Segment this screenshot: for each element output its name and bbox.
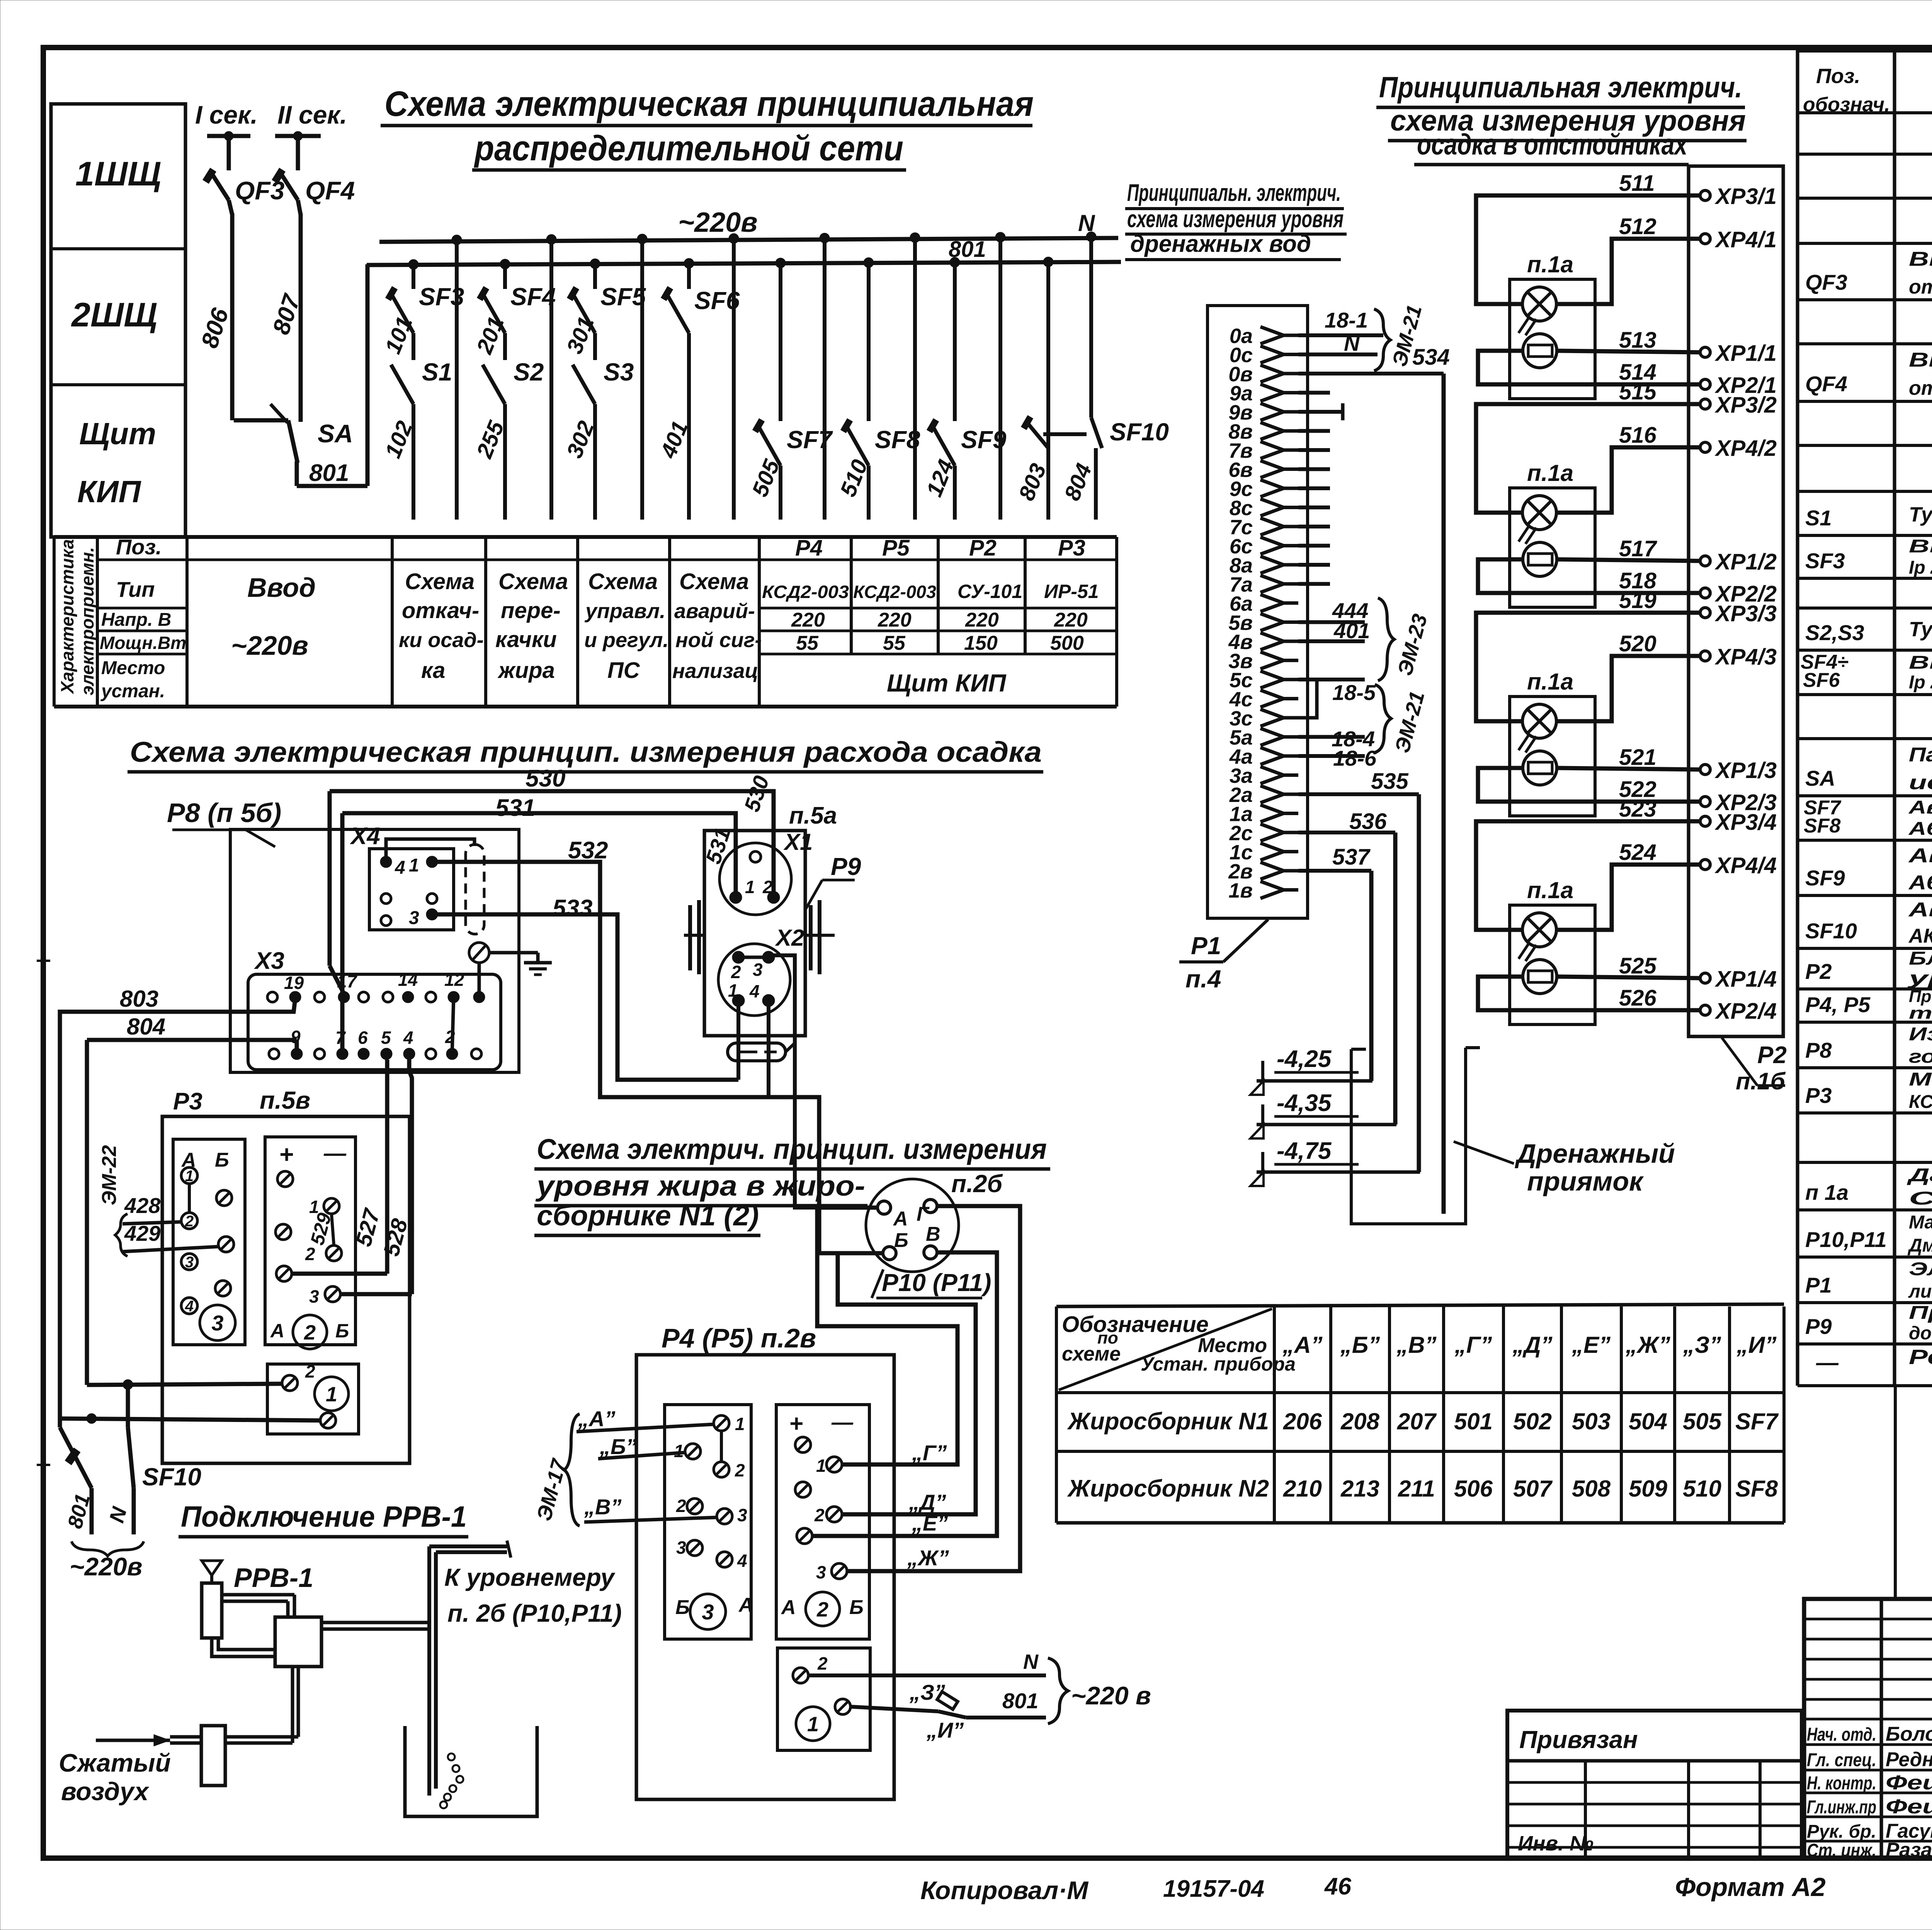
- svg-text:го расходомера ИР-51 ТУ-25-02-: го расходомера ИР-51 ТУ-25-02-321-72: [1909, 1047, 1932, 1067]
- wire 18-5: [1298, 678, 1365, 681]
- svg-text:К уровнемеру: К уровнемеру: [444, 1563, 616, 1591]
- terminal ХР3/4: [1700, 816, 1710, 826]
- branch SF5/S3 wire 301/302: [593, 265, 597, 289]
- svg-text:2: 2: [814, 1505, 825, 1525]
- svg-text:SF5: SF5: [600, 283, 646, 311]
- valve box: [275, 1617, 321, 1667]
- svg-text:502: 502: [1513, 1408, 1552, 1434]
- svg-text:Автоматичческий Выключатель: Автоматичческий Выключатель: [1908, 797, 1932, 818]
- svg-text:3: 3: [702, 1600, 714, 1624]
- svg-text:АК63-2МУЗ Iр 4,0А отс. 5: АК63-2МУЗ Iр 4,0А отс. 5: [1908, 925, 1932, 947]
- svg-text:Характеристика: Характеристика: [57, 539, 77, 695]
- svg-text:526: 526: [1619, 985, 1657, 1011]
- svg-text:„Г”: „Г”: [1454, 1332, 1492, 1358]
- svg-text:55: 55: [796, 632, 819, 654]
- svg-text:Ввод: Ввод: [247, 573, 316, 603]
- svg-text:535: 535: [1371, 769, 1409, 794]
- svg-text:I сек.: I сек.: [195, 100, 258, 129]
- leader to drain pit text: [1454, 1142, 1514, 1164]
- svg-text:ХР1/4: ХР1/4: [1714, 967, 1777, 992]
- svg-text:208: 208: [1340, 1408, 1380, 1434]
- svg-text:-4,35: -4,35: [1277, 1090, 1332, 1116]
- branch SF8 wire 510: [867, 264, 871, 421]
- svg-text:Привязан: Привязан: [1519, 1726, 1638, 1753]
- svg-text:КСД2-003: КСД2-003: [853, 582, 936, 602]
- svg-text:Редникин: Редникин: [1886, 1748, 1932, 1771]
- water tank: [405, 1726, 537, 1816]
- wire 807 drop: [296, 136, 300, 170]
- svg-text:519: 519: [1619, 588, 1656, 613]
- wire 519: [1476, 613, 1700, 721]
- svg-text:тр-ной измерительной КСД2- 00: тр-ной измерительной КСД2- 003: [1909, 1004, 1932, 1023]
- svg-text:Электрический регулятор- сигн: Электрический регулятор- сигна-: [1909, 1259, 1932, 1279]
- svg-text:исполн. III ОСТ 160. 526. 00: исполн. III ОСТ 160. 526. 001- 77: [1909, 771, 1932, 794]
- pin 9v stub with T end: [1298, 410, 1343, 414]
- P4 left terminal sub-box: [665, 1405, 751, 1639]
- svg-text:приямок: приямок: [1527, 1166, 1644, 1196]
- RRV-1 funnel: [202, 1561, 222, 1575]
- device P9 box: [704, 831, 805, 1036]
- svg-text:Подключение РРВ-1: Подключение РРВ-1: [181, 1500, 467, 1533]
- svg-text:А63 МУЗТУ 16. 522. 110-74 Iр 2: А63 МУЗТУ 16. 522. 110-74 Iр 2А отс. 5: [1908, 872, 1932, 894]
- svg-text:Iр 2,5А отс.3,5: Iр 2,5А отс.3,5: [1909, 672, 1932, 693]
- svg-text:„Е”: „Е”: [912, 1511, 948, 1535]
- wire 18-1: [1298, 333, 1383, 337]
- terminal ХР2/2: [1700, 588, 1710, 598]
- terminal ХР3/3: [1700, 608, 1710, 618]
- svg-text:803: 803: [120, 986, 158, 1012]
- junction on ~220v bus x=2368: [910, 233, 920, 243]
- svg-text:2: 2: [817, 1653, 828, 1673]
- svg-text:Инв. №: Инв. №: [1518, 1832, 1594, 1855]
- svg-text:Прибор с дифференциально-: Прибор с дифференциально-: [1909, 987, 1932, 1006]
- wire N stub: [132, 1488, 136, 1534]
- svg-text:п.1б: п.1б: [1736, 1068, 1786, 1095]
- svg-text:513: 513: [1619, 328, 1656, 353]
- svg-text:Схема: Схема: [405, 569, 474, 594]
- svg-text:отс. 5: отс. 5: [1909, 276, 1932, 298]
- svg-text:1: 1: [326, 1383, 337, 1406]
- svg-text:„Д”: „Д”: [1512, 1332, 1552, 1358]
- designation cross-reference table: [1056, 1304, 1784, 1306]
- svg-text:Р5: Р5: [882, 535, 910, 561]
- svg-text:п.1а: п.1а: [1527, 460, 1573, 486]
- wire 515: [1476, 404, 1700, 513]
- junction on 801 bus x=2471: [950, 257, 960, 267]
- svg-text:ХР4/4: ХР4/4: [1714, 853, 1777, 878]
- svg-text:Х2: Х2: [775, 925, 804, 951]
- svg-text:5: 5: [381, 1028, 391, 1048]
- svg-text:19: 19: [284, 973, 304, 993]
- brace ~220v right: [1048, 1658, 1068, 1724]
- svg-text:Миллиамперметр самопищущий: Миллиамперметр самопищущий: [1909, 1069, 1932, 1090]
- svg-text:ХР2/4: ХР2/4: [1714, 999, 1777, 1024]
- arrow marks lamp unit #4: [1519, 943, 1529, 959]
- svg-text:2: 2: [735, 1460, 745, 1480]
- svg-text:211: 211: [1398, 1476, 1435, 1502]
- svg-text:Выключатель АП 50- 3 МТ Iр 10: Выключатель АП 50- 3 МТ Iр 10А: [1909, 349, 1932, 371]
- svg-text:ХР3/4: ХР3/4: [1714, 810, 1777, 835]
- svg-text:SF3: SF3: [419, 283, 464, 311]
- svg-text:КС У2- 004: КС У2- 004: [1909, 1092, 1932, 1112]
- svg-text:210: 210: [1283, 1476, 1322, 1502]
- riser pipe to valve box: [291, 1667, 294, 1743]
- junction on 801 bus x=2713: [1043, 257, 1053, 267]
- svg-text:4: 4: [395, 858, 405, 878]
- svg-text:Р3: Р3: [1805, 1083, 1832, 1108]
- svg-text:устан.: устан.: [100, 681, 165, 702]
- svg-text:обознач.: обознач.: [1803, 93, 1890, 116]
- svg-text:Формат А2: Формат А2: [1675, 1872, 1826, 1902]
- svg-text:СУ-101 1Е 2.850.101 - 0Сп: СУ-101 1Е 2.850.101 - 0Сп: [1909, 1188, 1932, 1209]
- svg-text:SA: SA: [318, 419, 353, 448]
- breaker SF10 bottom left: [60, 1427, 92, 1488]
- drain pit walls: [1351, 1048, 1466, 1224]
- svg-text:ХР4/3: ХР4/3: [1714, 644, 1777, 669]
- signal lamp unit p.1a #1: [1510, 279, 1595, 399]
- svg-text:525: 525: [1619, 953, 1657, 979]
- svg-text:Р4: Р4: [795, 535, 823, 561]
- svg-text:пере-: пере-: [501, 598, 561, 623]
- svg-text:Мощн.Вт: Мощн.Вт: [100, 633, 186, 653]
- compressed air arrow: [96, 1739, 170, 1742]
- svg-text:Преобразователь расхода расх: Преобразователь расхода расхо-: [1909, 1303, 1932, 1323]
- svg-text:Тумблер ТВ1-2: Тумблер ТВ1-2: [1909, 503, 1932, 526]
- svg-text:Р3: Р3: [1058, 535, 1085, 561]
- svg-text:Б: Б: [675, 1596, 690, 1619]
- jumper 5s-4s-3s: [1298, 680, 1317, 718]
- svg-text:управл.: управл.: [584, 600, 665, 623]
- svg-text:А: А: [893, 1208, 908, 1230]
- svg-text:Х3: Х3: [254, 948, 284, 974]
- P3 plus-minus terminal sub-box: [265, 1137, 355, 1345]
- svg-text:Разанова: Разанова: [1886, 1839, 1932, 1861]
- svg-text:Болотов: Болотов: [1886, 1723, 1932, 1745]
- svg-text:п.1а: п.1а: [1527, 251, 1573, 277]
- terminal ХР3/1: [1700, 190, 1710, 200]
- svg-text:18-1: 18-1: [1325, 308, 1368, 332]
- svg-text:4: 4: [185, 1298, 194, 1315]
- svg-text:SF9: SF9: [961, 426, 1007, 454]
- svg-text:2: 2: [676, 1496, 686, 1516]
- svg-text:+: +: [789, 1410, 803, 1437]
- svg-text:509: 509: [1629, 1476, 1668, 1502]
- wire 517: [1557, 559, 1700, 561]
- svg-text:„Ж”: „Ж”: [907, 1546, 949, 1570]
- svg-text:~220в: ~220в: [231, 630, 308, 661]
- svg-text:Р2: Р2: [969, 535, 997, 561]
- svg-text:„А”: „А”: [1282, 1332, 1322, 1358]
- terminal ХР2/4: [1700, 1005, 1710, 1015]
- svg-text:Р9: Р9: [1805, 1314, 1832, 1339]
- svg-text:„Б”: „Б”: [1340, 1332, 1380, 1358]
- svg-text:КИП: КИП: [77, 474, 141, 509]
- wires X2 pins 1,4 to 532/533 runs: [736, 1007, 740, 1080]
- svg-text:4: 4: [737, 1551, 747, 1571]
- svg-text:Измерительный блок индукцион: Измерительный блок индукционно-: [1909, 1024, 1932, 1045]
- svg-text:2: 2: [816, 1598, 828, 1621]
- svg-text:12: 12: [444, 970, 464, 990]
- svg-text:Пакетный переключатель ПП2-10: Пакетный переключатель ПП2-10/Н2,: [1909, 744, 1932, 766]
- svg-text:Тумблер ТВ1-2: Тумблер ТВ1-2: [1909, 618, 1932, 641]
- junction on 801 bus x=1783: [684, 258, 694, 268]
- svg-text:ХР1/1: ХР1/1: [1714, 341, 1777, 366]
- svg-text:КСД2-003: КСД2-003: [762, 582, 849, 602]
- wire 520: [1556, 656, 1700, 721]
- svg-text:А: А: [270, 1320, 284, 1342]
- air bubbles: [448, 1753, 455, 1760]
- wire 801 stub: [90, 1488, 94, 1534]
- svg-text:Принципиальная электрич.: Принципиальная электрич.: [1379, 71, 1742, 104]
- svg-text:512: 512: [1619, 214, 1656, 239]
- svg-text:-4,25: -4,25: [1277, 1046, 1332, 1072]
- svg-text:220: 220: [878, 609, 912, 631]
- svg-text:206: 206: [1283, 1408, 1322, 1434]
- svg-text:ПС: ПС: [607, 658, 640, 683]
- svg-text:Х1: Х1: [783, 829, 813, 855]
- svg-text:Обозначение: Обозначение: [1062, 1312, 1209, 1337]
- svg-text:2: 2: [304, 1321, 316, 1344]
- svg-text:2: 2: [731, 962, 741, 982]
- svg-text:18-5: 18-5: [1332, 680, 1376, 705]
- svg-text:SF8: SF8: [875, 426, 920, 454]
- terminal ХР1/3: [1700, 765, 1710, 775]
- title block columns: [1880, 1599, 1883, 1858]
- svg-text:уровня жира в жиро-: уровня жира в жиро-: [535, 1170, 865, 1202]
- svg-text:524: 524: [1619, 840, 1656, 865]
- svg-text:Р4, Р5: Р4, Р5: [1805, 992, 1871, 1017]
- svg-text:46: 46: [1324, 1873, 1351, 1900]
- svg-text:220: 220: [965, 609, 999, 631]
- svg-text:Сжатый: Сжатый: [59, 1748, 171, 1777]
- junction on ~220v bus x=1899: [729, 233, 739, 243]
- svg-text:Манометр дифференциальный: Манометр дифференциальный: [1909, 1212, 1932, 1233]
- junction on 801 bus x=2248: [864, 258, 874, 268]
- svg-text:SF10: SF10: [142, 1463, 201, 1491]
- wire from X2 bar to gland: [769, 955, 878, 1208]
- svg-text:511: 511: [1619, 171, 1655, 196]
- svg-text:Р9: Р9: [831, 853, 861, 880]
- svg-text:1: 1: [735, 1414, 745, 1434]
- svg-text:QF3: QF3: [1805, 270, 1847, 294]
- svg-text:SF10: SF10: [1805, 919, 1857, 943]
- terminal ХР2/1: [1700, 379, 1710, 389]
- pipe from RRV-1 bottom to valve: [212, 1638, 275, 1656]
- svg-text:ХР3/2: ХР3/2: [1714, 392, 1777, 418]
- svg-text:510: 510: [1683, 1476, 1721, 1502]
- svg-text:55: 55: [883, 632, 906, 654]
- svg-text:Р4 (Р5) п.2в: Р4 (Р5) п.2в: [662, 1323, 816, 1353]
- svg-text:2: 2: [185, 1213, 194, 1230]
- svg-text:Ст. инж.: Ст. инж.: [1807, 1840, 1876, 1861]
- wire 528 hookup: [341, 1292, 412, 1296]
- svg-text:507: 507: [1513, 1476, 1553, 1502]
- svg-text:жира: жира: [497, 658, 555, 683]
- wire 514: [1478, 351, 1700, 384]
- lamp HL4: [1522, 913, 1556, 947]
- svg-text:Выключатель АП50- 3МТ Iр -10: Выключатель АП50- 3МТ Iр -10А: [1909, 248, 1932, 270]
- characteristics table of consumers: [54, 535, 1117, 539]
- dip tube top bend to urovnemer: [429, 1544, 507, 1548]
- ground terminal circle: [469, 943, 489, 963]
- svg-text:S3: S3: [604, 358, 634, 386]
- svg-text:нализац: нализац: [672, 659, 758, 683]
- svg-text:SA: SA: [1805, 766, 1835, 790]
- svg-text:521: 521: [1619, 745, 1656, 770]
- svg-text:отс. 5: отс. 5: [1909, 377, 1932, 399]
- svg-text:515: 515: [1619, 379, 1657, 404]
- connector P10 (P11) circle p.2b: [866, 1179, 959, 1272]
- svg-text:2: 2: [305, 1361, 315, 1381]
- svg-text:Выключатель А53 МУЗ V~220: Выключатель А53 МУЗ V~220в: [1909, 652, 1932, 673]
- svg-text:„З”: „З”: [1683, 1332, 1721, 1358]
- svg-text:534: 534: [1412, 345, 1450, 370]
- device P3 box: [162, 1116, 410, 1463]
- bus ~220v: [379, 238, 1118, 242]
- terminal ХР2/3: [1700, 797, 1710, 807]
- wire 537: [1298, 869, 1371, 873]
- junction on ~220v bus x=1182: [452, 235, 462, 245]
- svg-text:S1: S1: [1805, 506, 1832, 530]
- svg-text:220: 220: [791, 609, 825, 631]
- wire 444: [1298, 620, 1365, 624]
- stub pins: [1298, 391, 1330, 395]
- lamp HL1: [1522, 287, 1556, 321]
- svg-text:электроприемн.: электроприемн.: [77, 547, 97, 695]
- svg-text:ИР-51: ИР-51: [1044, 581, 1099, 602]
- svg-text:ХР4/2: ХР4/2: [1714, 436, 1777, 461]
- svg-text:S2,S3: S2,S3: [1805, 620, 1864, 645]
- wire to SF10 from lamp box lower: [60, 1419, 320, 1420]
- svg-text:3: 3: [676, 1538, 686, 1558]
- svg-text:1: 1: [185, 1167, 194, 1184]
- svg-text:„Г”: „Г”: [912, 1441, 947, 1465]
- svg-text:Блок регулирования сигнализат: Блок регулирования сигнализатора: [1909, 948, 1932, 969]
- svg-text:6: 6: [358, 1028, 368, 1048]
- svg-text:523: 523: [1619, 797, 1656, 822]
- svg-text:2: 2: [762, 877, 773, 897]
- svg-text:ки осад-: ки осад-: [399, 629, 484, 652]
- svg-text:ХР4/1: ХР4/1: [1714, 227, 1777, 252]
- svg-text:1: 1: [409, 855, 419, 876]
- svg-text:Г: Г: [917, 1203, 930, 1225]
- wire 512: [1556, 239, 1700, 304]
- svg-text:Р10,Р11: Р10,Р11: [1805, 1227, 1887, 1252]
- svg-text:Р8: Р8: [1805, 1038, 1832, 1062]
- signal lamp unit p.1a #4: [1510, 905, 1595, 1024]
- wire 525: [1557, 977, 1700, 978]
- wire N from pin 0s: [1298, 353, 1378, 357]
- switch SA: [234, 418, 288, 423]
- svg-text:Р2: Р2: [1805, 959, 1832, 984]
- svg-text:схеме: схеме: [1062, 1343, 1121, 1365]
- svg-text:„И”: „И”: [926, 1718, 964, 1742]
- svg-text:дренажных вод: дренажных вод: [1130, 231, 1311, 257]
- junction on ~220v bus x=2589: [995, 232, 1005, 242]
- svg-text:Б: Б: [215, 1149, 229, 1171]
- branch SF6 wire 401: [687, 264, 691, 289]
- svg-text:3: 3: [409, 908, 419, 928]
- wire 801 from SA to bus: [297, 484, 367, 488]
- svg-text:Схема электрич. принцип. изм: Схема электрич. принцип. измерения: [537, 1133, 1047, 1165]
- svg-text:504: 504: [1629, 1408, 1667, 1434]
- svg-text:п.5а: п.5а: [789, 802, 837, 829]
- device P4 box: [636, 1355, 894, 1799]
- svg-text:Б: Б: [894, 1229, 908, 1252]
- svg-text:3: 3: [753, 960, 763, 980]
- svg-text:А: А: [738, 1594, 753, 1616]
- svg-text:п. 2б (Р10,Р11): п. 2б (Р10,Р11): [447, 1599, 622, 1627]
- svg-text:лизатор уровня ЭРСУ-3: лизатор уровня ЭРСУ-3: [1908, 1281, 1932, 1302]
- svg-text:А: А: [781, 1596, 796, 1619]
- svg-text:Б: Б: [849, 1596, 864, 1619]
- svg-text:„А”: „А”: [578, 1407, 615, 1431]
- specification table: [1798, 47, 1932, 53]
- svg-text:508: 508: [1572, 1476, 1611, 1502]
- wire 524: [1556, 865, 1700, 930]
- wire 536: [1298, 831, 1395, 834]
- svg-text:QF4: QF4: [1805, 372, 1847, 396]
- svg-text:3: 3: [309, 1286, 319, 1306]
- svg-text:Схема: Схема: [588, 569, 658, 594]
- svg-text:и регул.: и регул.: [584, 629, 668, 652]
- breaker QF4: [279, 171, 298, 200]
- svg-text:Рук. бр.: Рук. бр.: [1807, 1821, 1876, 1842]
- photoresistor R3: [1523, 751, 1557, 785]
- svg-text:2ШЩ: 2ШЩ: [71, 296, 157, 334]
- svg-text:429: 429: [124, 1221, 160, 1245]
- svg-text:Напр. В: Напр. В: [101, 610, 171, 630]
- P4 bottom terminal sub-box: [777, 1648, 870, 1750]
- photoresistor R4: [1523, 960, 1557, 994]
- svg-text:В: В: [926, 1223, 940, 1245]
- svg-text:сборнике N1 (2): сборнике N1 (2): [537, 1199, 759, 1232]
- wire 518: [1478, 559, 1700, 593]
- svg-text:Р2: Р2: [1757, 1042, 1787, 1069]
- junction on ~220v bus x=2824: [1086, 232, 1096, 242]
- svg-text:~220 в: ~220 в: [1071, 1681, 1151, 1710]
- svg-text:150: 150: [964, 632, 998, 654]
- svg-text:N: N: [1344, 331, 1360, 355]
- privyazan block: [1507, 1711, 1802, 1858]
- svg-text:Выключатель А63 М УЗ V~220в: Выключатель А63 М УЗ V~220в: [1909, 536, 1932, 557]
- svg-text:п.2б: п.2б: [951, 1170, 1003, 1198]
- device P8 box: [230, 829, 519, 1072]
- wire 535: [1298, 792, 1419, 796]
- svg-text:Р8 (п 5б): Р8 (п 5б): [167, 798, 281, 828]
- svg-text:~220в: ~220в: [678, 207, 758, 238]
- arrow marks lamp unit #2: [1519, 525, 1529, 542]
- ground symbol: [489, 951, 538, 955]
- wire 526: [1478, 977, 1700, 1010]
- svg-text:3: 3: [185, 1254, 194, 1271]
- svg-text:п.1а: п.1а: [1527, 669, 1573, 695]
- RRV-1 body: [202, 1583, 222, 1638]
- junction on 801 bus x=1540: [590, 259, 600, 269]
- svg-text:14: 14: [398, 970, 418, 990]
- connector strip P1 p.4 box: [1207, 306, 1308, 918]
- svg-text:Автоматический Выключатель: Автоматический Выключатель: [1908, 899, 1932, 921]
- svg-text:„И”: „И”: [1736, 1332, 1776, 1358]
- svg-text:воздух: воздух: [61, 1777, 150, 1806]
- brace EM-21 lower: [1375, 685, 1391, 753]
- svg-text:18-6: 18-6: [1333, 746, 1377, 770]
- svg-text:520: 520: [1619, 631, 1656, 656]
- svg-text:„Ж”: „Ж”: [1625, 1332, 1670, 1358]
- title block mini grid rows: [1804, 1618, 1932, 1621]
- svg-text:Устан. прибора: Устан. прибора: [1141, 1353, 1296, 1375]
- svg-text:Р10 (Р11): Р10 (Р11): [882, 1269, 991, 1296]
